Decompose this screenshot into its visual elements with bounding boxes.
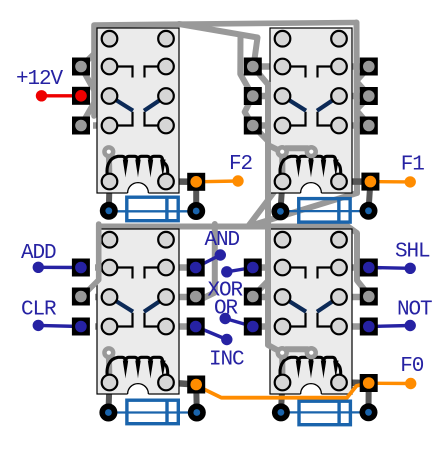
svg-text:ADD: ADD [21,242,56,265]
svg-text:INC: INC [209,349,244,372]
svg-text:SHL: SHL [395,241,430,264]
svg-text:F0: F0 [400,355,424,378]
svg-text:OR: OR [214,298,239,321]
svg-text:NOT: NOT [397,299,432,322]
svg-text:F2: F2 [229,153,253,176]
svg-text:AND: AND [205,229,240,252]
svg-text:+12V: +12V [16,68,64,91]
svg-text:CLR: CLR [21,299,57,322]
svg-text:F1: F1 [401,154,425,177]
